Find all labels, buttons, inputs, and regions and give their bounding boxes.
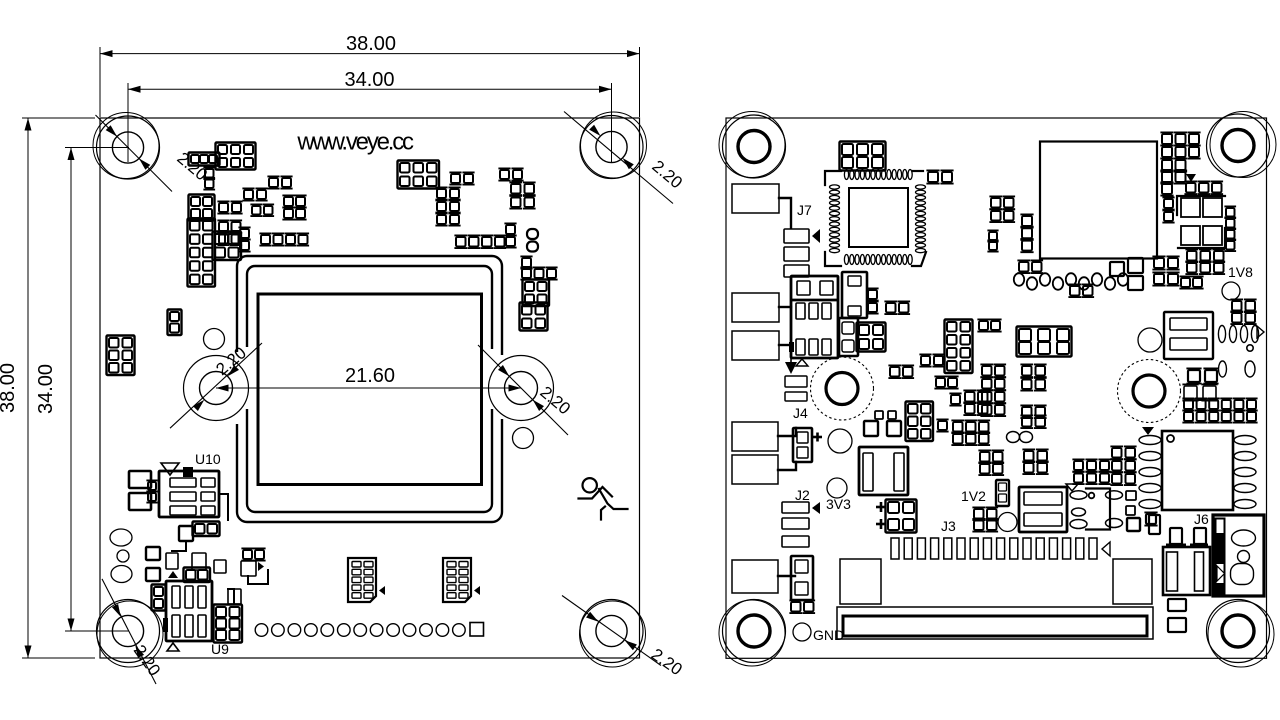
pad cluster L6 row bbox=[456, 237, 466, 247]
plus block J-bat bbox=[888, 502, 899, 513]
left edge pad R2 bbox=[732, 293, 779, 322]
U9 pin1 triangle bbox=[167, 643, 179, 651]
QFP corner wires bbox=[825, 171, 841, 185]
runner logo icon bbox=[583, 478, 597, 492]
bottom square pad left bbox=[840, 559, 881, 604]
pad cluster k-left-column bbox=[190, 221, 200, 231]
pad cluster k6 bbox=[244, 190, 253, 199]
pad cluster k2 bbox=[191, 155, 199, 163]
oval pads below inductor bbox=[1219, 361, 1227, 377]
J2 marker triangle bbox=[812, 502, 820, 514]
dimension 21.60 middle bbox=[216, 387, 521, 389]
cluster c6 bbox=[936, 378, 945, 387]
pads below cross bbox=[1187, 251, 1197, 261]
sensor active area rectangle bbox=[258, 294, 482, 485]
cluster c13 big pads bbox=[864, 421, 878, 436]
wire R1 to J7 bbox=[779, 198, 791, 228]
mounting hole bottom-left with 2.20 leader bbox=[112, 615, 143, 646]
cluster c12 bbox=[908, 404, 918, 414]
J3 pin row bbox=[891, 538, 899, 559]
QFP right pin column bbox=[916, 185, 926, 189]
row of pads right of matrix bbox=[1186, 183, 1196, 193]
fiducial ellipse bottom-left 1 bbox=[110, 529, 132, 546]
header H1 marker triangle bbox=[379, 586, 385, 595]
pad cluster k1 bbox=[218, 145, 227, 154]
dimension 38.00 left bbox=[27, 118, 29, 658]
U-ic pin1 dot bbox=[1089, 493, 1095, 499]
mounting hole right-board bottom-left bbox=[738, 615, 770, 647]
top-right pad matrix bbox=[1162, 134, 1172, 144]
power pads col bbox=[868, 290, 877, 299]
triangle bl bbox=[168, 571, 178, 578]
hollow triangle right edge bbox=[1257, 326, 1264, 338]
pad c14 bbox=[938, 421, 947, 430]
pad cluster L7 bbox=[506, 225, 515, 234]
fiducial circle bottom-left 2 bbox=[117, 550, 129, 562]
pad cluster k13 row bbox=[261, 235, 270, 244]
wire R6 bbox=[778, 575, 795, 577]
pads right of U-ic bbox=[1126, 491, 1136, 500]
pad cluster k16 bbox=[240, 229, 249, 238]
circle 3V3 bbox=[827, 478, 847, 498]
pads left of cross bbox=[1164, 199, 1173, 208]
QFP left pin column bbox=[830, 185, 840, 189]
wire R5 bbox=[778, 462, 796, 470]
J7 pad bars bbox=[784, 229, 809, 243]
left edge pad R5 bbox=[732, 455, 778, 484]
cluster above U-ic bbox=[1074, 461, 1083, 470]
svg-text:J7: J7 bbox=[797, 202, 812, 218]
cluster c5 bbox=[1019, 329, 1031, 341]
wire from U10 down bbox=[219, 494, 228, 520]
cluster c15 bbox=[953, 422, 963, 432]
pad cluster L1 bbox=[400, 163, 410, 173]
pad cluster L10 row bbox=[522, 269, 531, 278]
cluster t7 squares bbox=[1110, 262, 1124, 276]
mounting hole top-right with 2.20 leader bbox=[596, 131, 627, 162]
mounting hole right-board mid-left bbox=[826, 373, 858, 405]
cluster t8 bbox=[1154, 258, 1164, 268]
dimension 34.00 left bbox=[70, 148, 72, 632]
QFP bottom pin row bbox=[844, 255, 848, 265]
connector J4 bbox=[793, 428, 812, 462]
cluster c18 bbox=[980, 452, 990, 462]
cluster t9 bbox=[1181, 278, 1190, 287]
hollow triangle near arrow bbox=[796, 359, 808, 366]
bottom slot connector bbox=[837, 607, 1153, 639]
fiducial ellipse bottom-left 3 bbox=[111, 566, 132, 583]
wire bl bbox=[172, 541, 186, 551]
pad below-left of SOIC bbox=[1146, 514, 1156, 524]
pad L9 bbox=[522, 258, 531, 267]
svg-text:J3: J3 bbox=[941, 518, 956, 534]
power cluster 2x2 bbox=[859, 325, 869, 335]
circle below 1V8 bbox=[1222, 282, 1240, 300]
dimension 38.00 top bbox=[100, 53, 640, 55]
bottom connector hole row bbox=[255, 624, 268, 637]
cluster c13 small pads bbox=[875, 411, 883, 419]
svg-text:J4: J4 bbox=[793, 405, 808, 421]
J2 pad bars bbox=[782, 502, 809, 513]
mounting hole top-left with 2.20 leader bbox=[112, 132, 143, 163]
IC SOIC body bbox=[1162, 431, 1233, 510]
cluster t3 bbox=[989, 232, 997, 240]
cluster c8 bbox=[1022, 366, 1032, 376]
QFP top pin row bbox=[844, 170, 848, 180]
IC QFP body bbox=[849, 188, 908, 247]
tiny dot circle bbox=[1247, 345, 1253, 351]
circle near J3 bbox=[998, 513, 1017, 532]
svg-text:J6: J6 bbox=[1194, 511, 1209, 527]
svg-text:1V8: 1V8 bbox=[1228, 264, 1253, 280]
cluster t6 bbox=[1070, 286, 1080, 296]
plus sign J4 bbox=[813, 436, 822, 439]
power aux component right bbox=[842, 272, 867, 318]
svg-text:J2: J2 bbox=[795, 487, 810, 503]
triangle bl6 bbox=[258, 562, 264, 571]
pad bl2b bbox=[146, 568, 160, 581]
svg-text:34.00: 34.00 bbox=[344, 69, 394, 91]
cross cluster squares bbox=[1181, 198, 1200, 217]
left edge pad R3 bbox=[732, 331, 779, 360]
pad cluster k4 bbox=[191, 197, 200, 206]
pad above J6 bbox=[1149, 515, 1160, 534]
circle below mid-left hole bbox=[828, 429, 852, 453]
cluster t5a bbox=[1019, 262, 1029, 272]
mounting hole right-board top-left bbox=[738, 131, 770, 163]
svg-text:34.00: 34.00 bbox=[35, 364, 57, 414]
pad cluster k5 bbox=[219, 203, 228, 212]
pad bars below arrow bbox=[785, 376, 807, 387]
svg-text:38.00: 38.00 bbox=[346, 33, 396, 55]
cluster t2 column bbox=[1022, 216, 1032, 226]
U10 pin1 triangle bbox=[161, 463, 179, 475]
pad cluster k15 bbox=[215, 234, 225, 244]
GND circle bbox=[793, 623, 811, 641]
pad cluster L11 bbox=[525, 282, 534, 291]
power ovals bbox=[886, 303, 896, 313]
circle left of inductor bbox=[1138, 328, 1162, 352]
bottom connector square pad bbox=[470, 623, 484, 637]
pads right of hole bbox=[890, 367, 900, 377]
ground arrow bbox=[790, 353, 792, 366]
pad bl3a bbox=[166, 553, 178, 569]
fiducial circle above mid-left hole bbox=[204, 329, 225, 350]
cluster above QFP bbox=[842, 144, 853, 155]
left board outline bbox=[100, 118, 640, 658]
pad rows mid right bbox=[1184, 400, 1193, 409]
svg-text:GND: GND bbox=[813, 627, 844, 643]
power aux component lower bbox=[839, 318, 858, 356]
small squares below bbox=[1168, 599, 1186, 611]
U9 left pads bbox=[154, 587, 163, 596]
pads mid right 2 bbox=[1184, 386, 1197, 399]
oval pad pair bl1 bbox=[195, 524, 205, 534]
row under big square bbox=[1014, 273, 1024, 286]
IC U9 body bbox=[166, 581, 212, 641]
SOIC right pins bbox=[1234, 436, 1256, 445]
cluster left of SOIC bbox=[1112, 448, 1122, 458]
power IC body bbox=[791, 276, 838, 358]
pad cluster k7 bbox=[269, 178, 278, 187]
cluster below 1V2 bbox=[974, 509, 984, 519]
cluster right of inductor bbox=[1232, 301, 1242, 311]
header H1 bbox=[348, 558, 376, 602]
connector 1V2 bbox=[996, 480, 1009, 506]
U-ic right pin ovals bbox=[1106, 491, 1123, 499]
mounting hole bottom-right with 2.20 leader bbox=[596, 615, 627, 646]
header H2 bbox=[443, 558, 471, 602]
sensor outline outer rounded square bbox=[237, 256, 502, 522]
pad square bl1 bbox=[179, 526, 193, 541]
cluster t1 bbox=[991, 198, 1001, 208]
SOIC left pins bbox=[1139, 436, 1161, 445]
mounting hole mid-right with 2.20 leader bbox=[505, 372, 538, 405]
dimension 34.00 top bbox=[128, 88, 612, 90]
svg-text:38.00: 38.00 bbox=[0, 363, 19, 413]
capacitor B1 bbox=[859, 447, 908, 495]
hollow triangle down near B2 bbox=[1066, 484, 1078, 491]
triangle top-right bbox=[1186, 174, 1196, 182]
mounting hole right-board mid-right bbox=[1133, 375, 1165, 407]
U-ic left pin ovals bbox=[1070, 491, 1087, 499]
svg-text:3V3: 3V3 bbox=[826, 496, 851, 512]
pad cluster L5 bbox=[511, 184, 521, 194]
header H2 marker triangle bbox=[474, 586, 480, 595]
U10 left pads bbox=[129, 471, 151, 488]
mounting hole right-board bottom-right bbox=[1222, 615, 1254, 647]
cluster c4 bbox=[979, 321, 988, 330]
capacitor B2 bbox=[1019, 487, 1067, 532]
svg-text:21.60: 21.60 bbox=[345, 365, 395, 387]
left edge pad R6 bbox=[732, 560, 778, 593]
fiducial circle below mid-right hole bbox=[513, 428, 534, 449]
J3 marker hollow triangle bbox=[1102, 542, 1110, 556]
hole courtyard mask mid-right bbox=[488, 355, 555, 422]
cluster c3 bbox=[947, 322, 957, 332]
oval pair bl5 bbox=[186, 570, 196, 580]
cluster c11 bbox=[1022, 407, 1032, 417]
pad cluster k8 bbox=[252, 206, 261, 215]
wire u9 right bbox=[228, 589, 234, 604]
wire R3 bbox=[779, 344, 791, 346]
J7 marker triangle bbox=[812, 229, 820, 243]
pad cluster L4 bbox=[500, 170, 509, 179]
left edge pad R1 bbox=[732, 184, 779, 213]
svg-text:U10: U10 bbox=[195, 451, 221, 467]
wire R4 bbox=[778, 428, 796, 436]
svg-text:www.veye.cc: www.veye.cc bbox=[296, 129, 414, 156]
hole courtyard mask mid-left bbox=[183, 355, 250, 422]
oval pads below bbox=[791, 602, 801, 612]
cluster c15b bbox=[953, 434, 963, 444]
plus sign 2 bbox=[876, 523, 886, 526]
right board outline bbox=[726, 118, 1267, 658]
connector J6 bbox=[1213, 515, 1264, 596]
pad bl6a bbox=[214, 560, 226, 573]
pad bl3b bbox=[192, 553, 206, 570]
oval pair bl6 bbox=[243, 550, 252, 559]
plus sign 1 bbox=[876, 506, 886, 509]
pad cluster k11 bbox=[219, 222, 228, 231]
oval row right mid bbox=[1218, 326, 1225, 343]
pad cluster k3 bbox=[205, 169, 214, 178]
pad cluster L8 bbox=[527, 229, 538, 239]
pad c9 bbox=[951, 395, 960, 404]
pad above U9 right cluster bbox=[228, 589, 241, 604]
IC U10 body bbox=[159, 471, 219, 517]
SOIC pin1 dot bbox=[1167, 435, 1174, 442]
pads right of cross bbox=[1226, 208, 1235, 217]
pad cluster L3 bbox=[437, 189, 446, 198]
wire bl6 bbox=[248, 570, 268, 584]
pad cluster L2 bbox=[451, 174, 460, 183]
wire R2 bbox=[779, 306, 791, 308]
triangle above SOIC bbox=[1142, 427, 1154, 435]
component left of J6 bbox=[1163, 547, 1210, 595]
pad cluster M1 bbox=[109, 338, 119, 348]
U9 right cluster bbox=[216, 607, 226, 617]
cluster c10 bbox=[965, 392, 975, 402]
svg-text:1V2: 1V2 bbox=[961, 488, 986, 504]
right mid inductor bbox=[1164, 312, 1213, 359]
pads right of QFP top bbox=[928, 172, 938, 182]
left edge pad R4 bbox=[732, 422, 778, 451]
pads above component left of J6 bbox=[1170, 528, 1182, 544]
pads mid right 1 bbox=[1188, 370, 1200, 382]
U9 black notch bbox=[163, 618, 168, 632]
connector M2 bbox=[170, 312, 179, 321]
sensor outline middle rounded square bbox=[247, 266, 492, 512]
cluster c2 bbox=[921, 356, 930, 365]
component below J2 bbox=[791, 556, 813, 600]
bottom square pad right bbox=[1113, 559, 1152, 604]
pad cluster L12 bbox=[522, 305, 532, 315]
power black bar bbox=[789, 342, 794, 352]
mounting hole mid-left with 2.20 leader bbox=[200, 372, 233, 405]
oval pads c16 bbox=[1007, 432, 1020, 443]
big IC square top-right bbox=[1040, 142, 1157, 259]
cluster c7 bbox=[982, 366, 992, 376]
pad cluster k9 bbox=[284, 197, 293, 206]
pad bl2a bbox=[146, 547, 160, 560]
mounting hole right-board top-right bbox=[1222, 130, 1254, 162]
small IC U bracket bbox=[1086, 489, 1110, 530]
pad bl6b bbox=[241, 561, 256, 576]
cluster c19 bbox=[1024, 451, 1034, 461]
